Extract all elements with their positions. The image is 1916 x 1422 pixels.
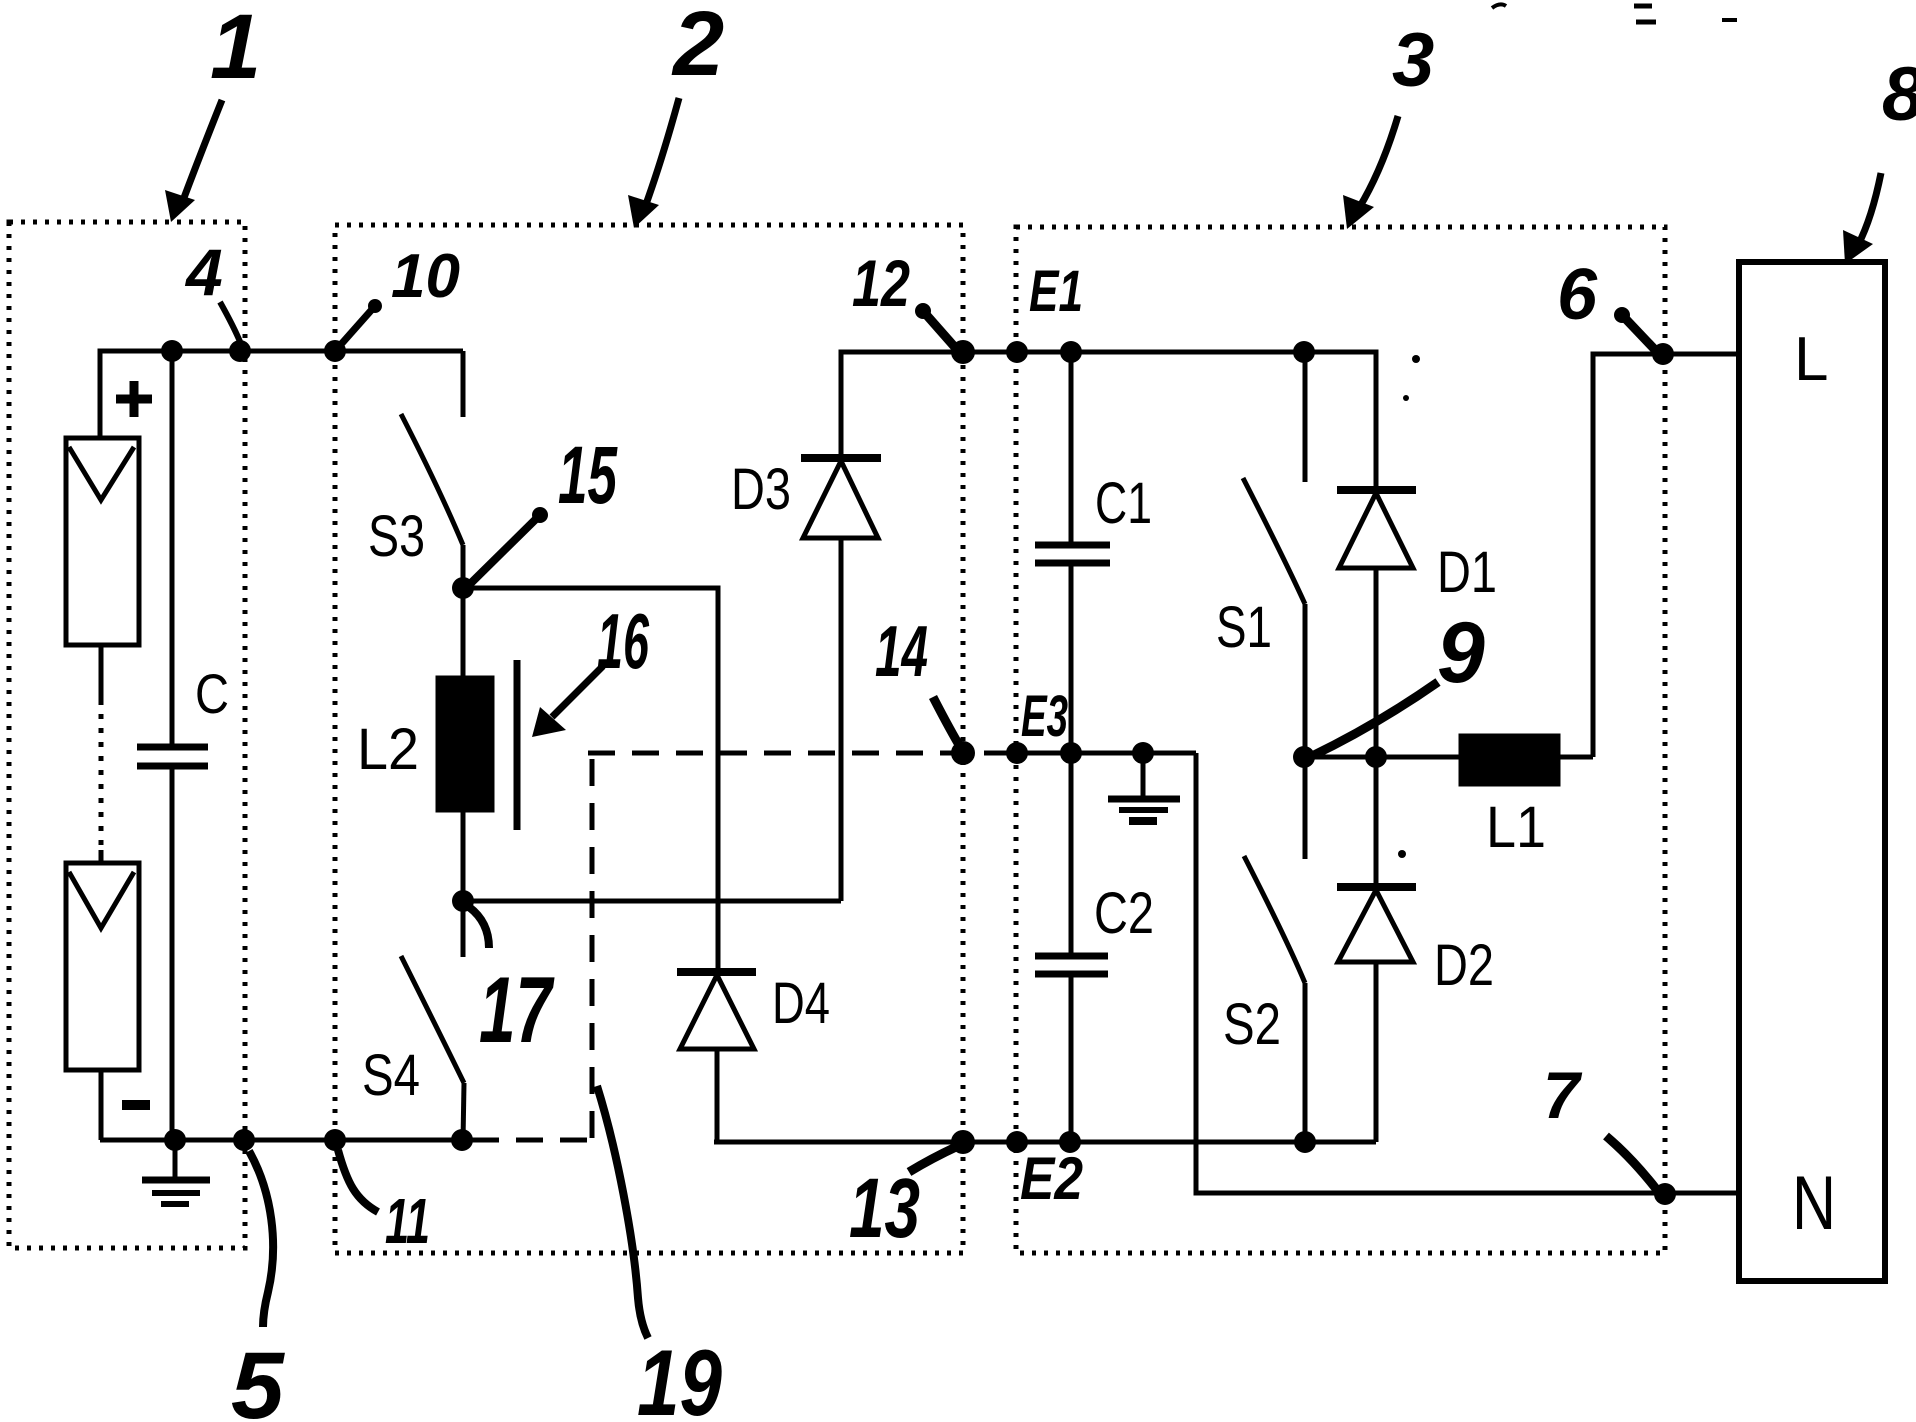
diode D3 — [801, 458, 881, 901]
svg-text:L: L — [1794, 325, 1828, 394]
node 4 dot — [229, 340, 251, 362]
svg-text:3: 3 — [1392, 18, 1434, 103]
pointer for label 6 — [1614, 307, 1659, 354]
wire node17 to D3 — [463, 899, 841, 904]
svg-text:6: 6 — [1557, 255, 1598, 335]
node 14 dot — [951, 741, 975, 765]
ground (PV side) — [142, 1140, 210, 1204]
svg-text:L2: L2 — [357, 717, 419, 782]
node E2 dot — [1059, 1131, 1081, 1153]
node E1 dot — [1060, 341, 1082, 363]
pointer for label 5 — [249, 1151, 273, 1327]
wire E3 rail — [1016, 751, 1196, 756]
svg-text:S3: S3 — [368, 504, 425, 569]
switch S1 — [1243, 352, 1305, 757]
PV minus stub — [99, 1070, 104, 1140]
wire top rail left (PV+ to S3) — [100, 351, 463, 438]
capacitor C1 upper lead — [1069, 352, 1074, 545]
wire E3 to N terminal — [1196, 753, 1739, 1193]
pointer for label 13 — [909, 1146, 958, 1172]
minus label — [122, 1100, 150, 1110]
junction dot D1 bottom — [1365, 746, 1387, 768]
wire mid rail (node 9) — [1304, 755, 1461, 760]
PV series link (dotted) — [99, 645, 104, 700]
pointer for label 15 — [468, 507, 548, 586]
junction dot S4 bottom — [451, 1129, 473, 1151]
stray specks — [1398, 355, 1420, 858]
capacitor C upper lead — [170, 351, 175, 747]
pointer for label 4 — [220, 302, 241, 344]
junction dot C ground — [164, 1129, 186, 1151]
node 10 dot — [324, 340, 346, 362]
plus label — [116, 381, 152, 417]
arrow for label 1 — [182, 100, 222, 203]
node 11 dot — [324, 1129, 346, 1151]
svg-text:12: 12 — [852, 246, 910, 320]
capacitor C2 upper lead — [1069, 753, 1074, 956]
svg-text:17: 17 — [479, 957, 555, 1062]
enclosure box 1 (PV generator block) — [9, 222, 245, 1248]
capacitor C1 plates — [1035, 545, 1110, 563]
svg-text:2: 2 — [671, 0, 724, 95]
junction dot ground tap — [1132, 742, 1154, 764]
diode D2 — [1337, 757, 1416, 1142]
svg-text:14: 14 — [875, 612, 928, 692]
core line (element 16) — [514, 660, 521, 830]
pointer for label 17 — [469, 907, 489, 948]
pointer for label 9 — [1312, 682, 1438, 756]
dashed link 19 (optional ground connection) — [472, 753, 1016, 1140]
svg-text:C1: C1 — [1095, 471, 1152, 536]
junction dot C top — [161, 340, 183, 362]
junction dot box3 left border E3 rail — [1006, 742, 1028, 764]
svg-text:D1: D1 — [1437, 540, 1497, 605]
pointer for label 10 — [336, 299, 382, 350]
svg-text:C: C — [195, 662, 229, 725]
inductor L2 body — [438, 678, 492, 810]
PV cell upper — [66, 438, 139, 645]
pointer for label 7 — [1606, 1136, 1657, 1190]
svg-text:D4: D4 — [772, 971, 830, 1036]
inductor L1 body — [1461, 736, 1558, 784]
arrow for label 16 — [552, 666, 603, 717]
diode D4 — [677, 972, 756, 1142]
enclosure box 2 (converter stage block) — [335, 225, 963, 1253]
capacitor C lower lead — [170, 766, 175, 1140]
svg-text:15: 15 — [558, 430, 618, 521]
ground (E3 side) — [1108, 753, 1180, 821]
wire bottom rail left (PV- rail, nodes 5/11) — [100, 1138, 467, 1143]
svg-text:D2: D2 — [1434, 933, 1494, 998]
junction dot S2/D2 bottom — [1294, 1131, 1316, 1153]
capacitor C plates — [137, 747, 208, 766]
svg-text:16: 16 — [597, 597, 649, 685]
node E3 dot — [1060, 742, 1082, 764]
svg-text:13: 13 — [849, 1161, 920, 1255]
node 13 dot — [951, 1130, 975, 1154]
node 5 dot — [233, 1129, 255, 1151]
capacitor C2 lower lead — [1069, 974, 1074, 1142]
node 6 dot — [1652, 343, 1674, 365]
svg-text:5: 5 — [231, 1333, 285, 1422]
svg-text:10: 10 — [391, 242, 460, 311]
node 17 dot — [452, 890, 474, 912]
svg-text:L1: L1 — [1486, 795, 1546, 860]
pointer for label 19 — [597, 1086, 648, 1338]
svg-text:7: 7 — [1543, 1058, 1583, 1132]
switch S2 — [1244, 757, 1305, 1142]
capacitor C1 lower lead — [1069, 563, 1074, 753]
switch S3 — [401, 351, 463, 588]
svg-text:E1: E1 — [1029, 259, 1083, 324]
svg-text:C2: C2 — [1094, 881, 1154, 946]
svg-text:S4: S4 — [362, 1043, 420, 1108]
node 15 dot — [452, 577, 474, 599]
node 7 dot — [1654, 1183, 1676, 1205]
arrow for label 3 — [1359, 116, 1398, 208]
svg-text:4: 4 — [184, 235, 223, 309]
svg-text:8: 8 — [1882, 52, 1916, 137]
wire bottom rail right (nodes 13/E2) — [714, 1140, 1376, 1145]
stray scan marks top right — [1492, 4, 1737, 22]
wire top rail middle (D3 to D1, nodes 12/E1) — [841, 352, 1376, 490]
svg-text:N: N — [1792, 1161, 1836, 1246]
inductor L2 leads — [461, 588, 466, 901]
arrow for label 2 — [645, 98, 679, 207]
switch S4 — [401, 901, 464, 1141]
diode D1 — [1337, 490, 1416, 757]
svg-text:E3: E3 — [1021, 684, 1068, 749]
arrow for label 8 — [1858, 173, 1881, 245]
pointer for label 14 — [933, 697, 962, 750]
junction dot box3 left border bottom — [1006, 1131, 1028, 1153]
inductor L1 lead — [1558, 755, 1593, 760]
pointer for label 11 — [338, 1150, 378, 1212]
junction dot box3 top border — [1006, 341, 1028, 363]
svg-text:9: 9 — [1437, 605, 1485, 701]
svg-text:S2: S2 — [1223, 992, 1281, 1057]
PV cell lower — [66, 863, 139, 1070]
svg-text:19: 19 — [637, 1330, 722, 1422]
svg-text:1: 1 — [210, 0, 261, 98]
wire top rail right (L1 riser to grid L) — [1593, 354, 1739, 757]
enclosure box 3 (output stage block) — [1016, 227, 1665, 1253]
grid box 8 — [1739, 262, 1885, 1281]
junction dot S1/D1 top — [1293, 341, 1315, 363]
svg-text:S1: S1 — [1216, 595, 1272, 660]
svg-text:E2: E2 — [1020, 1145, 1083, 1212]
junction dot S1 bottom — [1293, 746, 1315, 768]
pointer for label 12 — [915, 303, 960, 353]
svg-text:11: 11 — [385, 1185, 430, 1257]
capacitor C2 plates — [1035, 956, 1108, 974]
wire node15 to D4 — [463, 588, 718, 972]
svg-text:D3: D3 — [731, 457, 791, 522]
node 12 dot — [951, 340, 975, 364]
